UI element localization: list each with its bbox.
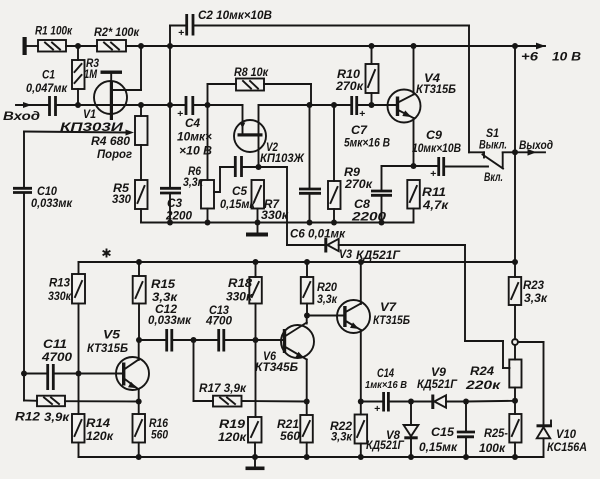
svg-text:1М: 1М	[84, 67, 98, 81]
svg-text:R19: R19	[219, 417, 245, 431]
wire C2 right column to switch	[468, 26, 470, 153]
transistor V5	[116, 340, 149, 414]
svg-text:V10: V10	[556, 427, 576, 441]
svg-text:R13: R13	[49, 276, 70, 290]
svg-text:2200: 2200	[165, 209, 192, 223]
node V9 / C15 top	[463, 399, 469, 405]
svg-text:C14: C14	[377, 366, 394, 380]
resistor R24	[509, 345, 521, 401]
node C8 bottom	[379, 220, 385, 226]
svg-text:R14: R14	[86, 416, 110, 430]
resistor R4	[135, 105, 148, 180]
wire to R24/R25 node	[466, 400, 515, 403]
svg-text:0,15мк: 0,15мк	[419, 440, 458, 454]
svg-text:КТ315Б: КТ315Б	[416, 82, 456, 96]
svg-text:5мк×16 В: 5мк×16 В	[344, 136, 390, 150]
node output	[512, 149, 518, 155]
resistor R8	[208, 79, 312, 106]
svg-text:+6: +6	[521, 50, 538, 64]
bottom row of upper stage	[141, 222, 414, 224]
node R15 top	[136, 259, 142, 265]
node C6 bottom	[307, 220, 313, 226]
svg-text:V7: V7	[380, 300, 397, 314]
resistor R18	[249, 262, 261, 417]
svg-text:R18: R18	[228, 276, 252, 290]
node R23/R24 junction circle	[512, 339, 518, 345]
resistor R14	[72, 414, 85, 457]
node R20 bottom / V7 base / V6 collector	[304, 313, 310, 319]
wire to R17	[194, 340, 214, 401]
node R6 bottom	[205, 220, 211, 226]
svg-text:Вкл.: Вкл.	[484, 170, 503, 184]
node C3 bottom	[167, 220, 173, 226]
svg-text:C9: C9	[426, 128, 442, 142]
Порог tap wire with arrow to R4	[24, 130, 134, 136]
svg-text:КП103Ж: КП103Ж	[260, 151, 305, 165]
svg-text:+: +	[359, 108, 365, 120]
svg-text:Порог: Порог	[97, 147, 133, 161]
node R16 bottom	[136, 454, 142, 460]
node R15 bottom / V5 collector / C12	[136, 337, 142, 343]
node V7 collector top	[358, 259, 364, 265]
svg-text:КД521Г: КД521Г	[366, 438, 405, 452]
resistor R25	[509, 401, 521, 457]
bottom section supply rail	[79, 261, 516, 263]
resistor R7	[252, 180, 265, 223]
svg-text:V3: V3	[339, 247, 352, 261]
svg-text:R11: R11	[422, 185, 446, 199]
svg-text:R8 10к: R8 10к	[234, 65, 269, 79]
capacitor C8	[371, 166, 392, 223]
node rail to output column	[512, 259, 518, 265]
svg-text:330к: 330к	[226, 290, 253, 304]
svg-text:R15: R15	[151, 277, 175, 291]
svg-text:КТ315Б: КТ315Б	[87, 341, 128, 355]
capacitor C13	[194, 329, 284, 352]
svg-text:560: 560	[151, 428, 168, 442]
svg-text:R1 100к: R1 100к	[35, 24, 73, 38]
svg-text:4700: 4700	[205, 314, 232, 328]
diode V3	[324, 238, 465, 253]
emitter row wire	[382, 165, 439, 167]
svg-text:0,047мк: 0,047мк	[26, 81, 68, 95]
wire	[26, 45, 38, 47]
svg-text:330: 330	[112, 192, 131, 206]
diode V9	[411, 395, 466, 410]
wire V7 base	[307, 315, 344, 317]
resistor R6	[201, 105, 214, 223]
node V4 emitter / R11 top	[411, 163, 417, 169]
svg-text:C4: C4	[185, 116, 200, 130]
capacitor C3	[160, 188, 181, 222]
svg-text:Вход: Вход	[3, 109, 40, 123]
svg-text:R23: R23	[523, 278, 544, 292]
+6V arrow	[516, 43, 546, 50]
input terminal bar	[23, 37, 27, 55]
node V6 emitter / R21 top / row	[304, 399, 310, 405]
svg-text:270к: 270к	[335, 79, 364, 93]
input arrow Вход	[16, 102, 49, 108]
node V7 emitter / R22 / C14	[358, 399, 364, 405]
svg-text:R24: R24	[470, 364, 494, 378]
wire	[66, 45, 97, 47]
node row y105 C2 column	[167, 102, 173, 108]
capacitor C14	[361, 392, 411, 412]
switch S1	[469, 152, 516, 168]
svg-text:+: +	[430, 168, 436, 180]
svg-text:+: +	[178, 27, 184, 39]
svg-text:×10 В: ×10 В	[179, 144, 212, 158]
wire V3 row to R24 tap	[465, 245, 510, 368]
capacitor C4	[186, 96, 193, 115]
svg-text:0,15мк: 0,15мк	[220, 197, 256, 211]
svg-text:120к: 120к	[218, 430, 247, 444]
svg-text:R25-: R25-	[484, 426, 508, 440]
capacitor C2	[170, 14, 469, 36]
svg-text:0,033мк: 0,033мк	[148, 313, 192, 327]
asterisk mark	[103, 249, 111, 258]
ground	[246, 223, 268, 237]
svg-text:560: 560	[280, 429, 300, 443]
svg-text:0,033мк: 0,033мк	[31, 196, 73, 210]
wire +6V rail	[126, 45, 516, 47]
node R10 bottom	[369, 102, 375, 108]
svg-text:3,3к: 3,3к	[317, 292, 338, 306]
svg-text:C6 0,01мк: C6 0,01мк	[290, 227, 346, 241]
svg-text:3,3к: 3,3к	[183, 175, 204, 189]
svg-text:10 В: 10 В	[552, 50, 581, 64]
node R1-R2-R3	[75, 43, 81, 49]
resistor R5	[135, 180, 148, 223]
resistor R20	[301, 262, 314, 316]
svg-text:C2 10мк×10В: C2 10мк×10В	[198, 8, 272, 22]
node R22 bottom	[358, 454, 364, 460]
node base V6 / divider	[253, 337, 259, 343]
svg-text:3,9к: 3,9к	[44, 410, 70, 424]
resistor R22	[355, 415, 368, 458]
svg-text:C11: C11	[43, 337, 67, 351]
capacitor C1	[50, 96, 56, 116]
wire V2 drain to V3 row	[259, 167, 326, 245]
node R9 top	[331, 102, 337, 108]
node R19 bottom / ground2	[252, 454, 258, 460]
node R18 top	[253, 259, 259, 265]
node C15 bottom	[463, 454, 469, 460]
svg-text:КД521Г: КД521Г	[356, 248, 401, 262]
node C2/C3 column	[167, 43, 173, 49]
node C11 / R13-R14	[76, 371, 82, 377]
svg-text:V5: V5	[103, 328, 120, 342]
capacitor C9	[439, 157, 488, 176]
ground 2	[246, 457, 265, 470]
resistor R23	[509, 262, 522, 339]
wire C2 left column	[169, 26, 171, 188]
svg-text:4700: 4700	[41, 350, 72, 364]
capacitor C7	[352, 96, 396, 115]
svg-text:R4 680: R4 680	[91, 134, 130, 148]
svg-text:+: +	[374, 403, 380, 415]
node output column top	[512, 43, 518, 49]
svg-text:10мк×: 10мк×	[177, 130, 212, 144]
capacitor C11	[21, 364, 123, 390]
svg-text:КТ315Б: КТ315Б	[373, 313, 410, 327]
svg-text:КД521Г: КД521Г	[417, 377, 458, 391]
resistor R1	[38, 40, 66, 52]
resistor R19	[248, 417, 262, 457]
node V5 emitter / R16 top / R12	[136, 399, 142, 405]
svg-text:R17 3,9к: R17 3,9к	[199, 381, 247, 395]
transistor V4	[388, 46, 421, 166]
node V1 drain column	[138, 43, 144, 49]
node R9 bottom	[331, 220, 337, 226]
svg-text:100к: 100к	[479, 441, 506, 455]
node R10 top	[369, 43, 375, 49]
resistor R17	[213, 396, 307, 407]
resistor R10	[366, 46, 379, 105]
node V4 collector	[411, 43, 417, 49]
node C6 top	[307, 102, 313, 108]
svg-text:4,7к: 4,7к	[422, 198, 449, 212]
node R20 top	[304, 259, 310, 265]
node V8 bottom	[408, 454, 414, 460]
svg-text:330к: 330к	[48, 289, 72, 303]
svg-text:3,3к: 3,3к	[524, 291, 548, 305]
svg-text:330к: 330к	[261, 208, 289, 222]
svg-text:220к: 220к	[465, 378, 501, 392]
transistor V6	[281, 316, 314, 416]
output column wire	[514, 46, 516, 262]
output arrow Выход	[515, 149, 545, 156]
svg-text:V1: V1	[83, 107, 96, 121]
transistor V1	[94, 46, 141, 120]
node R25 bottom	[512, 454, 518, 460]
capacitor C15	[457, 402, 475, 458]
svg-text:КТ345Б: КТ345Б	[255, 360, 298, 374]
capacitor C6	[299, 105, 321, 223]
capacitor C12	[139, 329, 194, 352]
node C14 / V8 top	[408, 399, 414, 405]
node R8 left / R6 top	[205, 102, 211, 108]
resistor R16	[133, 414, 146, 457]
bottom ground rail	[79, 456, 544, 458]
svg-text:270к: 270к	[344, 177, 373, 191]
svg-text:C15: C15	[431, 425, 454, 439]
wire signal row right of C4	[193, 104, 243, 106]
capacitor C5	[214, 156, 259, 192]
node R4 top	[138, 102, 144, 108]
transistor V7	[337, 262, 370, 415]
node R21 bottom	[304, 454, 310, 460]
transistor V2	[234, 105, 266, 167]
svg-text:120к: 120к	[86, 429, 114, 443]
svg-text:C1: C1	[42, 68, 55, 82]
node R3 bottom	[75, 102, 81, 108]
svg-text:R12: R12	[15, 410, 40, 424]
resistor R13	[72, 262, 85, 414]
svg-text:2200: 2200	[351, 210, 387, 224]
diode V8	[404, 402, 419, 458]
node V2 drain / C5 / R7	[256, 164, 262, 170]
svg-text:1мк×16 В: 1мк×16 В	[365, 379, 407, 391]
resistor R11	[407, 180, 420, 223]
resistor R2	[97, 40, 126, 52]
svg-text:3,3к: 3,3к	[331, 430, 353, 444]
svg-text:R2* 100к: R2* 100к	[94, 25, 140, 39]
svg-text:Выход: Выход	[519, 138, 553, 152]
resistor R3	[72, 46, 85, 105]
resistor R9	[328, 105, 341, 223]
resistor R15	[133, 262, 146, 340]
svg-text:+: +	[177, 108, 183, 120]
svg-text:C5: C5	[232, 184, 247, 198]
node C12/C13/R17	[191, 337, 197, 343]
capacitor C10	[13, 132, 32, 401]
wire signal row	[56, 104, 186, 106]
node R24 bottom / R25 top	[512, 398, 518, 404]
svg-text:КС156А: КС156А	[547, 440, 587, 454]
svg-text:Выкл.: Выкл.	[479, 138, 507, 152]
svg-text:10мк×10В: 10мк×10В	[412, 141, 461, 155]
svg-text:КП303И: КП303И	[60, 120, 124, 134]
zener V10	[518, 342, 552, 457]
resistor R21	[300, 415, 313, 457]
node R7 bottom / ground	[255, 220, 261, 226]
resistor R12	[24, 396, 139, 407]
